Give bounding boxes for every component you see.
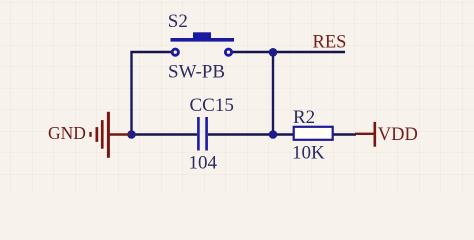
wire: top horizontal segment from corner to switch left terminal bbox=[131, 51, 173, 53]
junction: right middle node where vertical wire meets capacitor/resistor wire bbox=[269, 130, 278, 139]
resistor R2 body bbox=[294, 127, 333, 140]
svg-text:S2: S2 bbox=[168, 11, 188, 32]
capacitor CC15 plates bbox=[198, 117, 206, 151]
svg-text:SW-PB: SW-PB bbox=[168, 62, 225, 83]
wire: right vertical segment from top junction down to middle junction bbox=[272, 52, 274, 135]
junction: top node where switch output meets RES stub and vertical wire bbox=[269, 48, 278, 57]
wire: top-left vertical segment from corner down to GND junction bbox=[130, 51, 132, 135]
svg-text:VDD: VDD bbox=[378, 125, 418, 145]
svg-text:10K: 10K bbox=[292, 143, 325, 164]
svg-text:R2: R2 bbox=[293, 107, 315, 128]
pushbutton switch S2 body (bar, actuator bump, two terminal circles) bbox=[171, 32, 235, 55]
svg-text:CC15: CC15 bbox=[190, 95, 234, 116]
svg-text:104: 104 bbox=[189, 153, 218, 174]
svg-text:RES: RES bbox=[313, 33, 347, 53]
wire: segment from resistor right pin toward VDD power port bbox=[334, 133, 357, 135]
junction: left middle node at GND connection bbox=[127, 130, 136, 139]
wire: middle horizontal segment from capacitor right plate to resistor left pin bbox=[208, 133, 293, 135]
svg-text:GND: GND bbox=[48, 123, 86, 143]
wire: top horizontal segment from switch right terminal through junction to RES stub end bbox=[232, 51, 345, 53]
power port VDD (pin and bar) bbox=[355, 122, 376, 147]
ground symbol (earth bars) bbox=[89, 112, 130, 158]
wire: middle horizontal segment from GND junction to capacitor left plate bbox=[132, 133, 198, 135]
